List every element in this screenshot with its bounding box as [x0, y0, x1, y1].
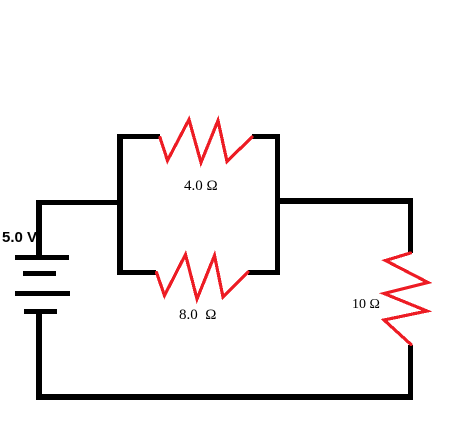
- wire: parallel box left vertical: [117, 134, 123, 275]
- wire: battery to parallel box (left middle horizontal): [36, 200, 117, 205]
- wire: bottom horizontal: [36, 394, 413, 400]
- wire: box top-right horizontal: [252, 134, 280, 139]
- wire: parallel box to right vertical (right middle horizontal): [280, 198, 413, 204]
- label: 8.0 ohm (R2 value): [179, 307, 216, 324]
- wire: parallel box right vertical: [275, 134, 280, 275]
- resistor R3 10 ohm zigzag (vertical): [384, 253, 428, 345]
- wire: box bottom-right horizontal: [248, 270, 280, 275]
- battery B1 plate 2 (short, -): [23, 271, 56, 276]
- wire: right lower vertical: [408, 345, 413, 400]
- wire: right upper vertical: [408, 198, 413, 253]
- wire: battery bottom vertical: [36, 314, 42, 400]
- wire: box bottom-left horizontal: [117, 270, 156, 275]
- label: 4.0 ohm (R1 value): [184, 178, 218, 195]
- battery B1 plate 3 (long, +): [15, 291, 70, 296]
- wire: battery top vertical: [36, 200, 42, 255]
- label: 10 ohm (R3 value): [352, 297, 380, 313]
- battery B1 plate 4 (short, -): [24, 309, 57, 314]
- battery B1 plate 1 (long, +): [15, 255, 69, 260]
- resistor R2 8.0 ohm zigzag: [157, 255, 249, 300]
- label: 5.0 V (battery value): [2, 229, 37, 246]
- wire: box top-left horizontal: [117, 134, 160, 139]
- resistor R1 4.0 ohm zigzag: [160, 120, 252, 163]
